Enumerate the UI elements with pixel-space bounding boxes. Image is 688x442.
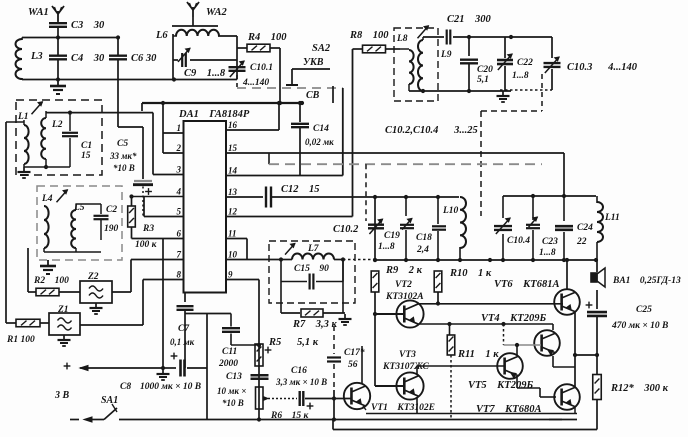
svg-text:VT1 КТ3102Е: VT1 КТ3102Е (371, 403, 435, 413)
svg-text:C10.1: C10.1 (250, 63, 273, 73)
svg-text:L1: L1 (17, 112, 29, 122)
svg-text:L10: L10 (442, 206, 459, 216)
svg-text:VT7 КТ680А: VT7 КТ680А (476, 404, 541, 415)
svg-text:Z2: Z2 (87, 272, 99, 282)
svg-text:L8: L8 (396, 34, 408, 44)
svg-text:5,1: 5,1 (477, 75, 489, 85)
svg-text:C3 30: C3 30 (71, 20, 105, 31)
svg-text:C13: C13 (226, 372, 242, 382)
svg-text:2,4: 2,4 (416, 245, 429, 255)
svg-text:5: 5 (177, 207, 182, 217)
svg-text:КТ3107ЖС: КТ3107ЖС (382, 362, 429, 372)
svg-text:C6 30: C6 30 (131, 53, 157, 64)
svg-text:16: 16 (228, 120, 238, 130)
svg-text:VT4 КТ209Б: VT4 КТ209Б (481, 313, 546, 324)
svg-text:4: 4 (176, 187, 182, 197)
svg-text:L7: L7 (307, 244, 320, 254)
svg-text:L4: L4 (41, 194, 53, 204)
svg-text:3: 3 (176, 165, 182, 175)
svg-text:C10.4: C10.4 (507, 236, 530, 246)
svg-text:1000 мк × 10 В: 1000 мк × 10 В (140, 382, 201, 392)
svg-text:190: 190 (104, 224, 119, 234)
svg-text:C18: C18 (416, 233, 432, 243)
svg-text:КТ3102А: КТ3102А (385, 292, 424, 302)
svg-text:C1: C1 (81, 141, 92, 151)
svg-text:WA2: WA2 (206, 7, 228, 18)
svg-text:15: 15 (228, 143, 238, 153)
svg-text:470 мк × 10 В: 470 мк × 10 В (611, 321, 668, 331)
svg-text:VT6 КТ681А: VT6 КТ681А (494, 279, 559, 290)
svg-text:SA2: SA2 (312, 43, 331, 54)
svg-text:R8 100: R8 100 (349, 30, 389, 41)
svg-text:R11 1 к: R11 1 к (457, 349, 499, 360)
svg-text:C20: C20 (477, 65, 493, 75)
svg-text:R2 100: R2 100 (33, 276, 69, 286)
svg-text:C7: C7 (178, 324, 190, 334)
svg-text:1...8: 1...8 (378, 242, 395, 252)
svg-text:C21 300: C21 300 (447, 14, 492, 25)
svg-text:3,3 мк × 10 В: 3,3 мк × 10 В (275, 377, 327, 387)
svg-text:L2: L2 (51, 120, 63, 130)
svg-text:2000: 2000 (218, 359, 238, 369)
svg-text:3 В: 3 В (54, 390, 70, 401)
svg-text:УКВ: УКВ (303, 57, 324, 68)
svg-text:C15 90: C15 90 (294, 264, 329, 274)
svg-text:C10.2: C10.2 (333, 224, 359, 235)
svg-text:2: 2 (176, 143, 182, 153)
svg-text:R9 2 к: R9 2 к (385, 265, 423, 276)
svg-text:6: 6 (177, 229, 182, 239)
svg-text:33 мк*: 33 мк* (109, 151, 137, 161)
svg-text:0,1 мк: 0,1 мк (170, 337, 195, 347)
svg-text:R5 5,1 к: R5 5,1 к (268, 337, 319, 348)
svg-text:8: 8 (177, 270, 182, 280)
svg-text:С10.2,С10.4 3...25: С10.2,С10.4 3...25 (385, 125, 478, 136)
svg-text:R4 100: R4 100 (247, 32, 287, 43)
svg-text:C23: C23 (542, 237, 558, 247)
svg-text:WA1: WA1 (28, 7, 49, 18)
svg-text:11: 11 (228, 229, 237, 239)
svg-text:C25: C25 (636, 305, 652, 315)
svg-text:*10 В: *10 В (113, 163, 135, 173)
svg-text:10: 10 (228, 250, 238, 260)
svg-text:L6: L6 (155, 30, 168, 41)
svg-text:C12 15: C12 15 (281, 184, 320, 195)
svg-text:VT5 КТ209Б: VT5 КТ209Б (468, 380, 533, 391)
svg-text:L3: L3 (30, 51, 43, 62)
svg-text:1...8: 1...8 (512, 71, 529, 81)
svg-text:L9: L9 (440, 50, 452, 60)
svg-text:C5: C5 (117, 139, 128, 149)
svg-text:C8: C8 (120, 382, 131, 392)
svg-text:22: 22 (576, 237, 587, 247)
svg-text:12: 12 (228, 207, 238, 217)
svg-text:*10 В: *10 В (222, 398, 244, 408)
svg-text:R6 15 к: R6 15 к (270, 411, 309, 421)
svg-text:10 мк ×: 10 мк × (217, 386, 246, 396)
svg-text:C14: C14 (313, 124, 329, 134)
svg-text:СВ: СВ (306, 90, 320, 101)
svg-text:SA1: SA1 (101, 395, 118, 406)
svg-text:R7 3,3 к: R7 3,3 к (292, 319, 338, 330)
svg-text:C2: C2 (106, 205, 117, 215)
svg-text:1...8: 1...8 (539, 248, 556, 258)
svg-text:R10 1 к: R10 1 к (449, 268, 492, 279)
svg-text:DA1 ГА8184Р: DA1 ГА8184Р (178, 109, 250, 120)
svg-text:0,02 мк: 0,02 мк (305, 137, 334, 147)
svg-text:100 к: 100 к (135, 240, 158, 250)
svg-text:R12* 300 к: R12* 300 к (610, 383, 669, 394)
svg-text:7: 7 (177, 250, 182, 260)
svg-text:1: 1 (177, 123, 182, 133)
svg-text:13: 13 (228, 187, 238, 197)
svg-text:C9 1...8: C9 1...8 (184, 68, 226, 79)
svg-text:4...140: 4...140 (242, 78, 269, 88)
svg-text:C10.3 4...140: C10.3 4...140 (567, 62, 638, 73)
svg-text:C4 30: C4 30 (71, 53, 105, 64)
svg-text:9: 9 (228, 270, 233, 280)
svg-text:L11: L11 (604, 213, 620, 223)
svg-text:56: 56 (348, 360, 358, 370)
svg-text:C11: C11 (222, 347, 237, 357)
svg-text:14: 14 (228, 166, 238, 176)
svg-text:VT3: VT3 (399, 350, 416, 360)
svg-text:R3: R3 (142, 224, 154, 234)
svg-text:15: 15 (81, 151, 91, 161)
svg-text:C22: C22 (517, 58, 533, 68)
svg-text:C19: C19 (384, 231, 400, 241)
svg-text:C24: C24 (577, 223, 593, 233)
svg-text:VT2: VT2 (395, 280, 412, 290)
svg-text:BA1 0,25ГД-13: BA1 0,25ГД-13 (612, 276, 681, 286)
svg-text:R1 100: R1 100 (6, 335, 35, 345)
svg-text:C16: C16 (291, 366, 307, 376)
